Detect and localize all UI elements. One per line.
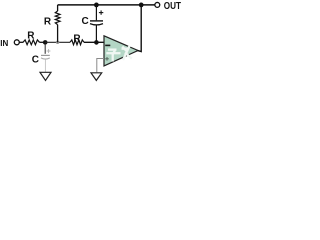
wire IN to R1 xyxy=(19,41,23,43)
svg-text:R: R xyxy=(73,34,81,45)
capacitor C2 wire from top xyxy=(95,5,97,20)
capacitor C2 plates xyxy=(90,20,103,22)
svg-text:OUT: OUT xyxy=(164,1,181,12)
input terminal IN xyxy=(14,40,19,45)
resistor R3 xyxy=(70,40,84,45)
wire C2 to node B xyxy=(95,25,97,43)
wire R1 to node A xyxy=(40,41,46,43)
svg-text:R: R xyxy=(44,17,52,28)
node A junction xyxy=(43,40,48,45)
node B junction xyxy=(94,40,99,45)
wire node A to R3 xyxy=(45,41,70,43)
output terminal xyxy=(155,2,160,7)
ground right xyxy=(91,73,102,81)
capacitor C1 grey wire from node A xyxy=(44,44,46,54)
watermark inside op-amp xyxy=(106,46,132,62)
svg-text:C: C xyxy=(32,55,39,66)
junction C2 top xyxy=(94,3,99,8)
wire op-amp output xyxy=(137,5,141,52)
resistor R2 vertical xyxy=(55,5,60,42)
svg-text:C: C xyxy=(82,16,89,27)
op-amp U1 xyxy=(104,36,138,66)
wire R3 to node B xyxy=(84,41,104,43)
ground left xyxy=(40,72,51,80)
wire C1 to ground xyxy=(44,59,46,72)
capacitor C2 plus sign xyxy=(99,10,103,14)
op-amp inverting input marker xyxy=(105,44,110,46)
svg-text:R: R xyxy=(27,31,35,42)
capacitor C1 plates (grey) xyxy=(41,54,50,56)
svg-text:IN: IN xyxy=(0,39,8,48)
top feedback wire xyxy=(58,4,155,6)
capacitor C1 plus sign xyxy=(47,49,51,53)
op-amp non-inverting input marker xyxy=(105,57,109,61)
resistor R1 xyxy=(23,40,40,45)
junction R2 bottom xyxy=(56,41,59,44)
junction output top xyxy=(139,3,144,8)
wire + input to ground xyxy=(97,59,104,73)
